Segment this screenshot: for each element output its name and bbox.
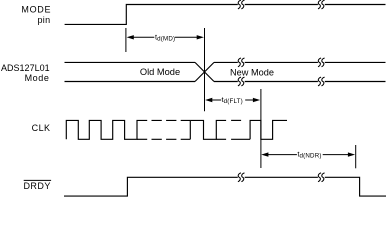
tick at filter-settled clock edge xyxy=(260,89,262,168)
wire CLK box 1 dashes xyxy=(152,120,191,139)
break mark bus top rail left xyxy=(238,58,245,67)
wire CLK final pulses xyxy=(250,120,287,139)
svg-text:MODE: MODE xyxy=(21,5,51,15)
bus crossover X xyxy=(195,62,214,81)
arrow t_d(NDR) xyxy=(261,152,355,156)
break mark bus top rail right xyxy=(318,58,325,67)
svg-text:ADS127L01: ADS127L01 xyxy=(1,63,50,73)
bus rails old mode xyxy=(65,62,196,81)
break mark bus bottom rail left xyxy=(238,77,245,86)
bus rails new mode xyxy=(214,62,386,81)
break mark MODE line left xyxy=(238,0,245,9)
svg-text:pin: pin xyxy=(37,15,50,25)
wire CLK box 2 bottom line xyxy=(231,138,250,140)
svg-text:Mode: Mode xyxy=(25,73,50,83)
wire CLK pulse after box 1 xyxy=(190,120,226,139)
wire CLK omitted-cycles box 1 bottom stub xyxy=(137,138,147,140)
wire CLK solid pulses xyxy=(66,120,147,139)
wire CLK box 2 bottom stub xyxy=(216,138,226,140)
tick at new-data-ready point xyxy=(355,145,357,168)
tick at mode-change crossing xyxy=(204,28,206,111)
arrow t_d(FLT) xyxy=(205,98,260,102)
overline of DRDY xyxy=(24,179,51,181)
svg-text:CLK: CLK xyxy=(32,123,51,133)
wire CLK box 2 top dash xyxy=(231,119,241,121)
wire CLK box 1 right edge xyxy=(189,120,191,139)
svg-text:DRDY: DRDY xyxy=(23,181,50,191)
break mark bus bottom rail right xyxy=(318,77,325,86)
break mark MODE line right xyxy=(318,0,325,9)
tick at MODE rising edge xyxy=(125,28,127,52)
svg-text:Old Mode: Old Mode xyxy=(140,67,180,77)
arrow t_d(MD) xyxy=(127,35,204,39)
wire DRDY waveform xyxy=(64,177,386,196)
svg-text:New Mode: New Mode xyxy=(230,67,274,77)
break mark DRDY line left xyxy=(238,173,245,182)
wire MODE pin waveform xyxy=(65,5,386,25)
break mark DRDY line right xyxy=(318,173,325,182)
